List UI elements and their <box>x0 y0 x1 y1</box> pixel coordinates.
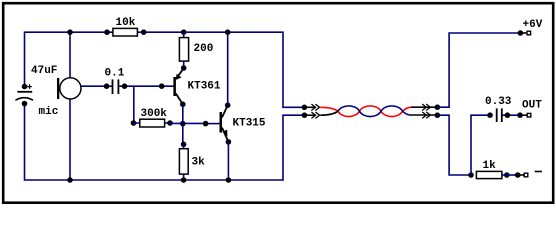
wire left rail upper segment <box>24 32 26 87</box>
wire +6V dot to square <box>520 32 526 34</box>
wire Q2 collector up <box>225 29 231 105</box>
label 10k <box>116 17 136 29</box>
wire mic to C2 <box>81 83 112 89</box>
svg-text:mic: mic <box>39 106 59 118</box>
svg-text:1k: 1k <box>483 160 497 172</box>
node cable lower left <box>302 112 308 118</box>
wire C2 to Q1 base <box>119 83 174 89</box>
wire to right chevrons lower <box>411 114 437 116</box>
label 47uF <box>31 65 57 77</box>
label OUT <box>522 100 542 112</box>
label KT315 <box>233 118 266 130</box>
resistor R1 10k <box>104 28 146 36</box>
svg-text:KT315: KT315 <box>233 118 266 130</box>
label minus <box>535 171 542 173</box>
resistor R5 1k <box>476 171 509 178</box>
wire right rail upper segment <box>283 32 304 108</box>
svg-text:0.1: 0.1 <box>105 68 125 80</box>
wire to Q2 base <box>203 121 220 127</box>
svg-text:47uF: 47uF <box>31 65 57 77</box>
connector chevrons left lower <box>311 112 319 118</box>
label 3k <box>192 156 206 168</box>
svg-text:+6V: +6V <box>523 19 543 31</box>
wire to left chevrons lower <box>304 114 316 116</box>
label 0.1 <box>105 68 125 80</box>
svg-text:KT361: KT361 <box>188 81 221 93</box>
node cable upper left <box>302 105 308 111</box>
label 1k <box>483 160 497 172</box>
node +6V <box>518 30 524 36</box>
wire out branch up <box>471 115 490 175</box>
resistor R3 300k <box>131 119 173 127</box>
wire left rail lower segment <box>24 104 26 181</box>
transistor Q1 KT361 PNP <box>173 68 185 107</box>
transistor Q2 KT315 NPN <box>220 102 232 144</box>
label 0.33 <box>485 96 512 108</box>
svg-text:300k: 300k <box>141 108 168 120</box>
wire 300k to cross node <box>170 122 206 124</box>
terminal minus square <box>524 173 528 177</box>
capacitor C3 0.33 <box>497 108 502 122</box>
label +6V <box>523 19 543 31</box>
microphone MIC1 <box>57 78 81 99</box>
wire C3 to OUT <box>502 112 523 118</box>
svg-text:200: 200 <box>194 43 214 55</box>
node cable lower right <box>435 112 441 118</box>
label 300k <box>141 108 168 120</box>
label KT361 <box>188 81 221 93</box>
svg-text:3k: 3k <box>192 156 206 168</box>
label 200 <box>194 43 214 55</box>
wire mic bottom <box>67 99 73 183</box>
label mic <box>39 106 59 118</box>
wire return path <box>437 115 471 175</box>
terminal +6V square <box>527 31 531 35</box>
wire +6V feed <box>437 33 520 107</box>
wire collector column <box>182 104 184 144</box>
connector chevrons right upper <box>422 104 430 110</box>
node cross junction <box>180 121 186 127</box>
node cable upper right <box>435 104 441 110</box>
wire minus dot to square <box>518 174 524 176</box>
wire feedback branch down <box>133 86 135 123</box>
connector chevrons right lower <box>422 112 430 118</box>
node return junction <box>468 172 474 178</box>
svg-text:10k: 10k <box>116 17 136 29</box>
connector chevrons left upper <box>311 104 319 110</box>
twisted pair black lead lower left <box>320 111 338 115</box>
node out left <box>487 112 493 118</box>
capacitor C2 0.1 <box>113 79 119 94</box>
capacitor C1 47uF polarized <box>15 84 33 107</box>
twisted pair dark strand <box>338 106 412 117</box>
wire mic top <box>67 29 73 77</box>
twisted pair red strand <box>320 106 411 117</box>
wire right rail lower segment <box>283 115 304 181</box>
svg-text:OUT: OUT <box>522 100 542 112</box>
wire bottom rail left block <box>25 179 284 181</box>
wire to left chevrons upper <box>304 106 316 108</box>
resistor R4 3k <box>179 142 188 183</box>
wire Q2 emitter down <box>226 142 232 183</box>
wire 1k to minus terminal <box>502 172 521 178</box>
wire OUT dot to square <box>520 114 527 116</box>
wire top rail left block <box>25 31 284 33</box>
terminal OUT square <box>527 113 531 117</box>
svg-text:0.33: 0.33 <box>485 96 512 108</box>
resistor R2 200 <box>179 29 188 70</box>
wire to right chevrons upper <box>411 106 437 108</box>
